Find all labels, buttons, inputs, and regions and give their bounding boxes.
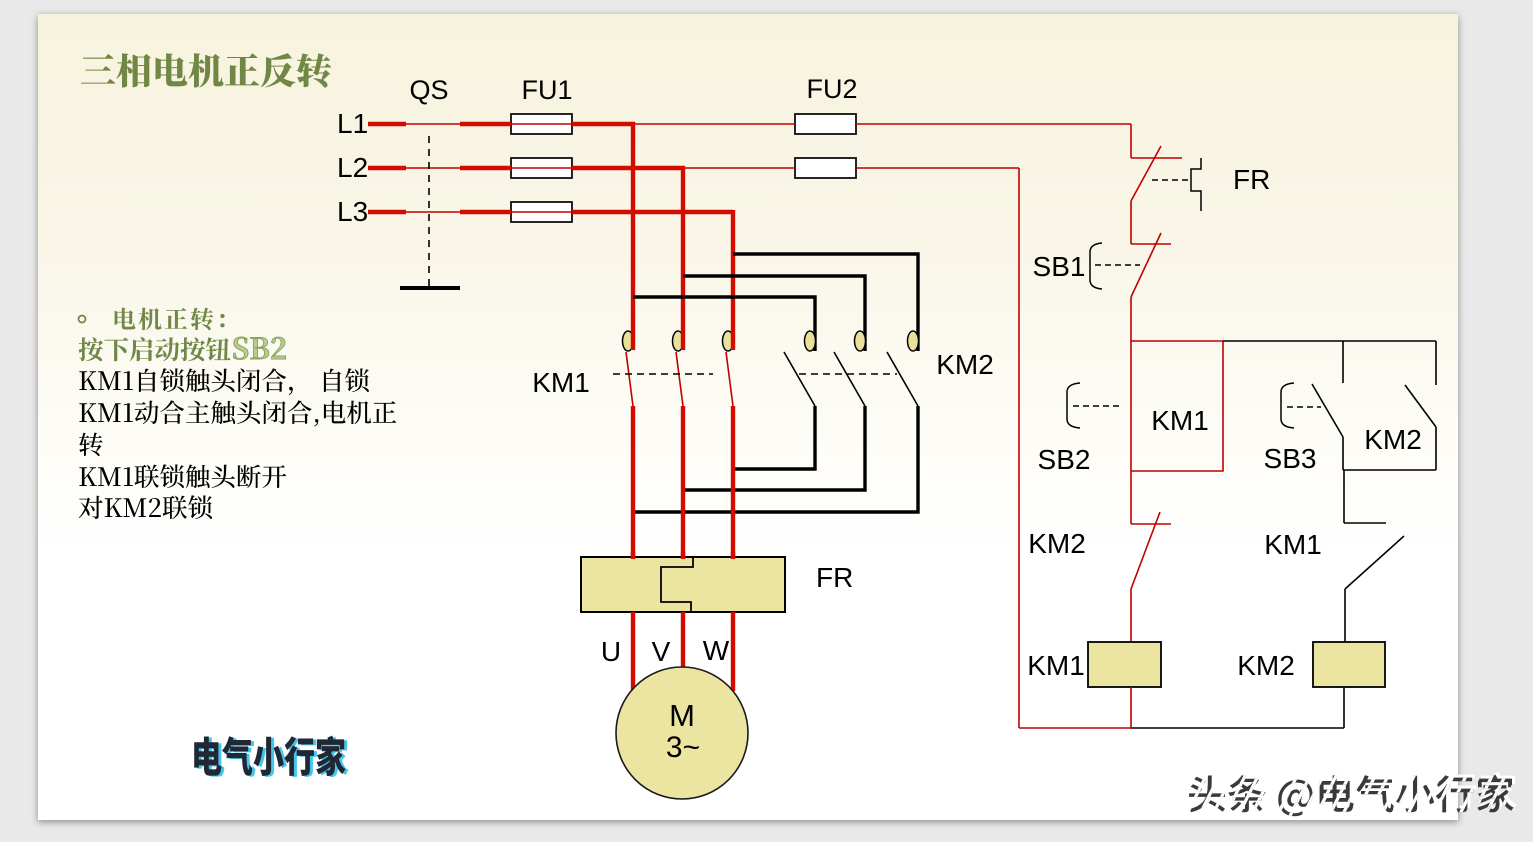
wire SB1 to junction [1130, 297, 1132, 341]
coil KM1 [1088, 642, 1161, 687]
wire control left rail from L2 [1018, 168, 1020, 728]
FR actuator dashes [1152, 179, 1191, 181]
text KM1动合 [79, 400, 396, 426]
fuse FU2 element L1 [795, 114, 856, 134]
button SB1 actuator dashes [1095, 264, 1140, 266]
contactor KM1 main contact blade at x=683 [676, 352, 683, 406]
fuse FU1 element L1 [511, 114, 572, 134]
title 三相电机正反转 [81, 53, 331, 88]
contactor KM2 main contact blade at x=865 [834, 352, 865, 406]
fuse FU1 element L3 [511, 202, 572, 222]
button SB3 top stub [1342, 341, 1344, 383]
contact FR NC blade [1131, 146, 1161, 201]
watermark 头条@电气小行家 white halo [1192, 772, 1517, 813]
wire interlock to KM2 coil [1344, 589, 1346, 643]
text KM1联锁 [79, 464, 286, 488]
watermark 头条@电气小行家 white cracks [1180, 760, 1533, 828]
wire join to KM1 interlock [1343, 470, 1345, 523]
watermark 头条@电气小行家 gray text [1189, 775, 1514, 816]
contactor KM1 main contact terminal at x=683 [673, 331, 684, 351]
button SB3 bottom stub [1342, 437, 1344, 470]
wire L1 thin segments [406, 123, 1131, 125]
svg-text:FU2: FU2 [806, 74, 857, 104]
svg-text:KM1: KM1 [532, 367, 590, 398]
wire phase V vertical upper [681, 166, 685, 332]
wire control drop from L1 [1130, 124, 1132, 158]
svg-text:KM2: KM2 [1364, 424, 1422, 455]
wire W to motor [731, 612, 735, 691]
svg-text:3~: 3~ [666, 731, 700, 764]
svg-text:L2: L2 [337, 152, 368, 183]
contact KM2 selflock bottom stub [1435, 427, 1437, 470]
svg-text:KM2: KM2 [1237, 650, 1295, 681]
contactor KM1 dashed linkage [613, 373, 713, 375]
button SB3 actuator dashes [1287, 406, 1321, 408]
fuse FU2 element L2 [795, 158, 856, 178]
text KM1自锁 [79, 368, 369, 395]
wire phase W vertical upper [731, 210, 735, 332]
overload relay FR heater box [581, 557, 785, 612]
text 转 [79, 433, 103, 457]
text SB2 light [234, 337, 286, 360]
wire FR to SB1 [1130, 201, 1132, 244]
bullet circle [79, 316, 86, 323]
wire KM1 coil to bottom rail [1130, 687, 1132, 728]
svg-text:QS: QS [409, 75, 448, 105]
wire V to motor [681, 612, 685, 668]
svg-text:U: U [601, 636, 621, 667]
motor M 3~ [616, 667, 748, 799]
watermark 电气小行家 [194, 736, 345, 776]
wire KM2 feed from L3 [733, 254, 918, 351]
wire control top rail black [1223, 340, 1436, 342]
text 按下启动按钮 [79, 337, 231, 361]
contact KM1 selflock loop [1131, 341, 1223, 471]
contactor KM2 main contact terminal at x=918 [908, 331, 919, 351]
wire L2 thin segments [406, 167, 1019, 169]
contactor KM2 main contact terminal at x=865 [855, 331, 866, 351]
wire phase U vertical upper [631, 122, 635, 332]
contact FR NC tick [1131, 157, 1182, 159]
contactor KM1 main contact terminal at x=633 [623, 331, 634, 351]
coil KM2 [1313, 642, 1385, 687]
text 对KM2联锁 [79, 495, 212, 519]
wire phase continuation through KM1 terminals [633, 332, 733, 350]
svg-text:L3: L3 [337, 196, 368, 227]
contactor KM2 main contact blade at x=815 [784, 352, 815, 406]
svg-text:W: W [703, 635, 730, 666]
wire KM2 output to V [683, 406, 865, 490]
svg-text:M: M [669, 698, 695, 733]
wire KM2 output to W [733, 406, 815, 469]
svg-text:L1: L1 [337, 108, 368, 139]
wire L3 thin segments [406, 211, 572, 213]
wire phase W vertical lower [731, 406, 735, 558]
contactor KM1 main contact blade at x=733 [726, 352, 733, 406]
contact KM2 NC interlock tick [1131, 523, 1171, 525]
contactor KM1 main contact blade at x=633 [626, 352, 633, 406]
wire KM2 feed from L1 [633, 297, 815, 351]
svg-text:FU1: FU1 [521, 75, 572, 105]
svg-text:KM2: KM2 [936, 349, 994, 380]
wire L2 thin through FU1 [511, 167, 572, 169]
svg-text:V: V [652, 636, 671, 667]
wire L1 thick segments [368, 122, 635, 126]
contact KM1 NC interlock blade (open) [1345, 536, 1404, 589]
contact KM2 selflock blade [1405, 385, 1436, 427]
button SB2 wire (closed) [1130, 341, 1132, 524]
wire KM2 feed from L2 [683, 276, 865, 351]
wire stubs over FR box top edge [633, 552, 733, 559]
svg-text:SB2: SB2 [1038, 444, 1091, 475]
contactor KM2 dashed linkage [799, 373, 897, 375]
button SB2 actuator dashes [1073, 405, 1121, 407]
svg-text:SB3: SB3 [1264, 443, 1317, 474]
button SB2 actuator bracket [1067, 383, 1080, 428]
button SB3 actuator bracket [1281, 383, 1294, 428]
contactor KM2 main contact terminal at x=815 [805, 331, 816, 351]
contactor KM1 main contact terminal at x=733 [723, 331, 734, 351]
svg-text:KM1: KM1 [1151, 405, 1209, 436]
wire L3 thick segments [368, 210, 733, 214]
button SB3 NO blade [1312, 384, 1343, 437]
contact KM1 NC interlock tick [1344, 522, 1386, 524]
contact KM2 selflock top stub [1435, 341, 1437, 385]
contact KM2 NC interlock blade [1131, 512, 1160, 589]
svg-text:KM1: KM1 [1264, 529, 1322, 560]
svg-text:KM1: KM1 [1027, 650, 1085, 681]
wire control bottom rail black [1131, 727, 1344, 729]
FR actuator symbol [1191, 158, 1201, 211]
wire phase U vertical lower [631, 406, 635, 558]
svg-text:FR: FR [816, 562, 853, 593]
wire L2 thick segments [368, 166, 685, 170]
wire junction to KM1 selflock [1131, 340, 1223, 342]
wire phase V vertical lower [681, 406, 685, 558]
watermark 电气小行家 cyan shadow [197, 737, 348, 777]
switch QS dashed linkage [428, 136, 430, 288]
wire interlock to KM1 coil [1130, 589, 1132, 643]
text 电机正转 [115, 308, 225, 331]
svg-text:SB1: SB1 [1033, 251, 1086, 282]
wire SB3 KM2 parallel join [1343, 469, 1436, 471]
button SB1 NC tick [1131, 243, 1171, 245]
button SB1 actuator bracket [1090, 243, 1102, 289]
switch QS handle bar [400, 286, 460, 290]
wire KM2 coil to bottom rail [1343, 687, 1345, 728]
overload relay FR heater notch [661, 557, 693, 612]
fuse FU1 element L2 [511, 158, 572, 178]
contactor KM2 main contact blade at x=918 [887, 352, 918, 406]
wire L1 thin through FU1 [511, 123, 572, 125]
wire KM2 output to U [633, 406, 918, 512]
wire U to motor [631, 612, 635, 690]
button SB1 NC blade [1131, 233, 1161, 297]
wire control bottom rail red [1019, 727, 1131, 729]
svg-text:KM2: KM2 [1028, 528, 1086, 559]
svg-text:FR: FR [1233, 164, 1270, 195]
